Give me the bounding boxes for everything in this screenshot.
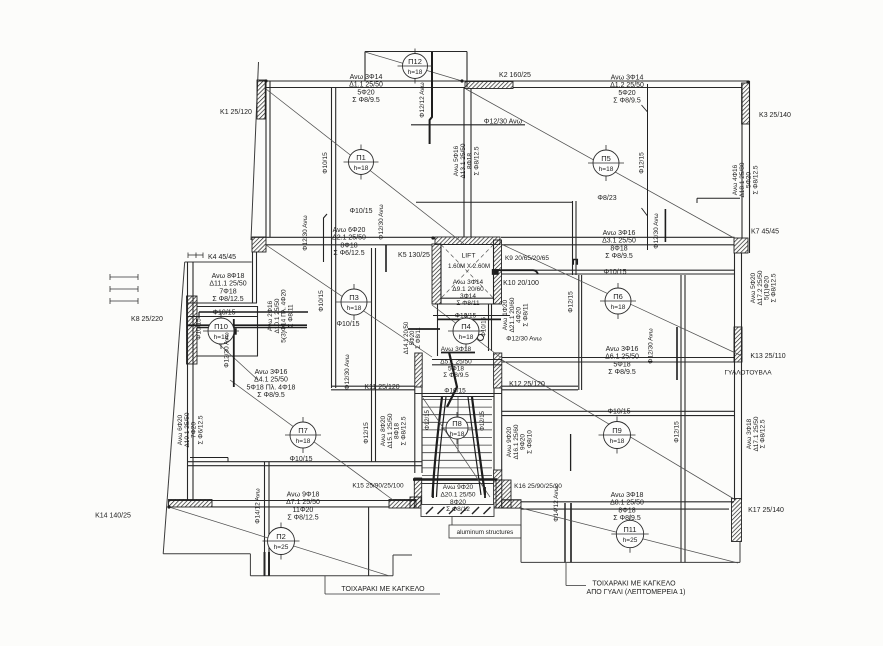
svg-text:Φ12/15: Φ12/15 <box>568 291 575 313</box>
svg-text:Π5: Π5 <box>601 154 611 163</box>
svg-text:Φ14/12 Ανω: Φ14/12 Ανω <box>255 488 262 523</box>
stair wall left bottom <box>414 478 421 508</box>
svg-text:Ανω 3Φ18: Ανω 3Φ18 <box>441 346 472 353</box>
svg-text:ΤΟΙΧΑΡΑΚΙ ΜΕ ΚΑΓΚΕΛΟ: ΤΟΙΧΑΡΑΚΙ ΜΕ ΚΑΓΚΕΛΟ <box>592 581 676 588</box>
slab label P11 <box>611 515 648 552</box>
rebar tick stair bottom left <box>432 487 434 498</box>
svg-text:5Φ20: 5Φ20 <box>618 90 635 97</box>
svg-text:Δ11.1 25/50: Δ11.1 25/50 <box>209 281 246 288</box>
svg-text:Σ Φ8/12.5: Σ Φ8/12.5 <box>212 296 243 303</box>
svg-text:Κ3 25/140: Κ3 25/140 <box>759 112 791 119</box>
stair wall right bottom <box>494 470 502 508</box>
svg-text:Π12: Π12 <box>408 57 422 66</box>
svg-text:Ανω 9Φ18: Ανω 9Φ18 <box>287 492 320 499</box>
svg-text:8Φ18: 8Φ18 <box>340 242 357 249</box>
rebar note D11.1 <box>209 273 246 303</box>
svg-text:aluminum structures: aluminum structures <box>457 529 514 536</box>
rebar phi8/23 <box>416 201 573 203</box>
svg-text:h=18: h=18 <box>599 166 614 173</box>
wall K8 <box>187 296 198 364</box>
row E end hooks <box>190 457 228 459</box>
slab label P2 <box>263 523 300 560</box>
wall K10 filled <box>492 269 499 274</box>
svg-text:Δ2.1 25/50: Δ2.1 25/50 <box>332 235 366 242</box>
svg-text:Κ17 25/140: Κ17 25/140 <box>748 507 784 514</box>
svg-text:Φ12/30 Ανω: Φ12/30 Ανω <box>344 354 351 389</box>
svg-text:Δ9.1 20/60: Δ9.1 20/60 <box>452 286 484 293</box>
stair center line <box>457 397 459 453</box>
svg-text:8Φ20: 8Φ20 <box>450 499 466 506</box>
svg-text:Δ8.1 25/50: Δ8.1 25/50 <box>610 500 644 507</box>
svg-text:5Φ20: 5Φ20 <box>357 89 374 96</box>
column K1 <box>257 80 265 119</box>
svg-text:Σ Φ8/9.5: Σ Φ8/9.5 <box>352 97 380 104</box>
rot note D17.2 <box>750 270 777 305</box>
svg-text:Ανω 3Φ18: Ανω 3Φ18 <box>611 492 644 499</box>
rebar note D6.1 <box>605 346 639 376</box>
svg-text:Φ12/30 Ανω: Φ12/30 Ανω <box>506 336 541 343</box>
svg-text:7Φ18: 7Φ18 <box>219 288 236 295</box>
column K17 <box>732 499 742 542</box>
column K3 <box>742 83 750 124</box>
rot note D13.1 <box>453 143 480 178</box>
svg-text:Σ Φ6/12.5: Σ Φ6/12.5 <box>197 415 204 444</box>
svg-text:Κ1 25/120: Κ1 25/120 <box>220 109 252 116</box>
rebar note D3.1 <box>602 230 636 260</box>
dark bar above D5.1 <box>441 352 475 354</box>
svg-text:ΑΠΟ ΓΥΑΛΙ (ΛΕΠΤΟΜΕΡΕΙΑ 1): ΑΠΟ ΓΥΑΛΙ (ΛΕΠΤΟΜΕΡΕΙΑ 1) <box>587 589 686 596</box>
svg-text:Ανω 3Φ14: Ανω 3Φ14 <box>453 279 484 286</box>
svg-text:Σ Φ8/9.5: Σ Φ8/9.5 <box>443 372 469 379</box>
svg-text:Κ9 20/65/20/65: Κ9 20/65/20/65 <box>505 255 549 262</box>
core wall left <box>432 244 441 304</box>
aluminum structures wall <box>421 505 494 517</box>
svg-text:Σ Φ8/9.5: Σ Φ8/9.5 <box>257 392 285 399</box>
svg-text:Κ12 25/120: Κ12 25/120 <box>509 381 545 388</box>
svg-text:Ανω 3Φ16: Ανω 3Φ16 <box>606 346 639 353</box>
svg-text:Π3: Π3 <box>349 293 359 302</box>
svg-text:Φ12/15: Φ12/15 <box>639 152 646 174</box>
rot note D18.1 <box>732 162 759 197</box>
svg-text:Φ10/15: Φ10/15 <box>603 269 626 276</box>
svg-text:Π7: Π7 <box>298 426 308 435</box>
rot note D10.1 left <box>177 412 204 447</box>
svg-text:h=25: h=25 <box>274 544 289 551</box>
svg-text:Κ15 25/90/25/100: Κ15 25/90/25/100 <box>352 483 404 490</box>
rebar note D8.1 <box>610 492 644 522</box>
rebar phi12/15 vertical <box>647 84 649 250</box>
rebar verticals right-middle <box>664 209 666 242</box>
svg-text:ΤΟΙΧΑΡΑΚΙ ΜΕ ΚΑΓΚΕΛΟ: ΤΟΙΧΑΡΑΚΙ ΜΕ ΚΑΓΚΕΛΟ <box>341 586 425 593</box>
svg-text:Κ5 130/25: Κ5 130/25 <box>398 252 430 259</box>
rebar hook P3 top <box>324 214 328 262</box>
slab label P3 <box>336 284 372 320</box>
junction dots <box>460 79 463 82</box>
column K4 <box>252 237 266 252</box>
rebar phi12/30 left <box>233 319 235 387</box>
svg-text:Κ4 45/45: Κ4 45/45 <box>208 254 236 261</box>
svg-text:h=25: h=25 <box>623 537 638 544</box>
svg-text:Π11: Π11 <box>623 525 636 534</box>
aluminum structures label box <box>449 525 521 538</box>
stair wall left top <box>415 353 422 387</box>
slab label P12 <box>398 49 433 84</box>
svg-text:Φ12/12 Ανω: Φ12/12 Ανω <box>419 82 426 117</box>
svg-text:Σ Φ8/12.5: Σ Φ8/12.5 <box>473 146 480 175</box>
svg-text:8Φ18: 8Φ18 <box>610 245 627 252</box>
svg-text:Δ20.1 25/50: Δ20.1 25/50 <box>440 491 475 498</box>
svg-text:Φ10/15: Φ10/15 <box>482 316 488 336</box>
leader left parapet <box>324 576 326 594</box>
svg-text:Σ Φ8/9.5: Σ Φ8/9.5 <box>608 369 636 376</box>
rot note D16.1 <box>506 424 533 459</box>
svg-text:Σ Φ8/11: Σ Φ8/11 <box>287 304 294 328</box>
svg-text:Φ12/15: Φ12/15 <box>363 422 370 444</box>
svg-text:Δ1.1 25/50: Δ1.1 25/50 <box>349 82 383 89</box>
slab label P4 <box>448 313 484 349</box>
beam-wall K2 <box>465 82 513 89</box>
svg-text:h=18: h=18 <box>611 304 626 311</box>
svg-text:Φ12/30 Ανω: Φ12/30 Ανω <box>648 328 655 363</box>
svg-text:Δ5.1 25/50: Δ5.1 25/50 <box>440 359 472 366</box>
svg-text:Π2: Π2 <box>276 532 286 541</box>
svg-text:Ανω 3Φ16: Ανω 3Φ16 <box>603 230 636 237</box>
outer boundary <box>251 62 259 240</box>
svg-text:Σ Φ8/11: Σ Φ8/11 <box>416 327 422 349</box>
svg-text:Φ12/30 Ανω: Φ12/30 Ανω <box>302 215 309 250</box>
svg-text:Δ1.2 25/50: Δ1.2 25/50 <box>610 82 644 89</box>
rebar phi12/12 <box>430 52 432 144</box>
svg-text:Σ Φ8/12.5: Σ Φ8/12.5 <box>770 273 777 302</box>
rebar note D7.1 <box>286 492 320 522</box>
svg-text:Δ3.1 25/50: Δ3.1 25/50 <box>602 238 636 245</box>
rebar note D1.1 <box>349 74 383 104</box>
svg-text:Φ10/15: Φ10/15 <box>322 152 329 174</box>
svg-text:h=18: h=18 <box>610 438 625 445</box>
staircase <box>422 399 492 401</box>
svg-text:Φ12/30 Ανω: Φ12/30 Ανω <box>224 332 231 367</box>
svg-text:h=18: h=18 <box>459 334 474 341</box>
svg-text:Κ14 140/25: Κ14 140/25 <box>95 513 131 520</box>
svg-text:8Φ18: 8Φ18 <box>618 507 635 514</box>
svg-text:Π4: Π4 <box>461 322 471 331</box>
svg-text:h=18: h=18 <box>296 438 311 445</box>
rebar note D9.1 <box>452 279 484 307</box>
svg-text:Σ Φ6/12.5: Σ Φ6/12.5 <box>333 250 364 257</box>
stair section zigzag <box>447 352 457 407</box>
svg-text:Φ12/15: Φ12/15 <box>425 409 431 429</box>
svg-text:Δ6.1 25/50: Δ6.1 25/50 <box>605 354 639 361</box>
rebar note D1.2 <box>610 75 644 105</box>
stair wall right top <box>494 353 502 388</box>
bottom wall K15 right <box>389 500 416 509</box>
core wall right K9 <box>494 240 502 304</box>
rebar tick stair bottom right <box>484 487 486 498</box>
svg-text:Σ Φ8/12.5: Σ Φ8/12.5 <box>752 165 759 194</box>
stair landing line <box>422 483 494 485</box>
svg-text:h=18: h=18 <box>347 305 362 312</box>
slab label P6 <box>600 283 636 319</box>
svg-text:Π10: Π10 <box>214 322 228 331</box>
slab label P10 <box>203 313 239 349</box>
stair bottom corner wall <box>410 497 421 508</box>
svg-text:Σ Φ8/12.5: Σ Φ8/12.5 <box>287 515 318 522</box>
bottom wall K15 left <box>169 500 213 508</box>
slab label P8 <box>441 412 473 444</box>
svg-text:Φ12/15: Φ12/15 <box>480 410 486 430</box>
solid block near P10 <box>231 329 237 335</box>
svg-text:Κ7 45/45: Κ7 45/45 <box>751 229 779 236</box>
stair stringer left <box>433 397 443 497</box>
rebar note D4.1 <box>247 369 296 399</box>
svg-text:Ανω 3Φ14: Ανω 3Φ14 <box>611 75 644 82</box>
svg-text:Φ12/30 Ανω: Φ12/30 Ανω <box>484 119 523 126</box>
rot note D15.1 <box>380 413 407 448</box>
svg-text:h=18: h=18 <box>450 431 465 438</box>
svg-text:3Φ14: 3Φ14 <box>460 293 476 300</box>
rebar rows near P4 <box>433 315 510 317</box>
stair landing heavy line <box>413 478 497 480</box>
svg-text:h=18: h=18 <box>354 165 369 172</box>
svg-text:Δ7.1 25/50: Δ7.1 25/50 <box>286 499 320 506</box>
svg-text:11Φ20: 11Φ20 <box>293 507 314 514</box>
svg-text:Φ10/15: Φ10/15 <box>289 456 312 463</box>
rebar K10 hooked <box>496 270 538 274</box>
svg-text:Π8: Π8 <box>452 419 462 428</box>
leader right parapet <box>565 563 567 586</box>
rot note D10.1 mid <box>267 289 294 343</box>
svg-text:Κ2 160/25: Κ2 160/25 <box>499 72 531 79</box>
svg-text:Φ12/30 Ανω: Φ12/30 Ανω <box>653 213 660 248</box>
rebar phi12/30 top <box>411 124 525 126</box>
svg-text:Σ Φ8/12.5: Σ Φ8/12.5 <box>760 419 767 448</box>
svg-text:Φ10/15: Φ10/15 <box>607 409 630 416</box>
svg-text:Δ4.1 25/50: Δ4.1 25/50 <box>254 377 288 384</box>
svg-text:Π6: Π6 <box>613 292 623 301</box>
rebar rows left-middle <box>199 311 308 313</box>
svg-text:Σ Φ8/12: Σ Φ8/12 <box>446 506 470 513</box>
stair walk line <box>423 398 490 497</box>
svg-text:Κ10 20/100: Κ10 20/100 <box>503 280 539 287</box>
slab label P7 <box>285 417 321 453</box>
stair stringer right <box>472 397 485 495</box>
rebar note D2.1 <box>332 227 366 257</box>
circled mark <box>478 335 484 341</box>
rebar below K5 <box>385 245 387 272</box>
svg-text:Σ Φ8/9.5: Σ Φ8/9.5 <box>613 98 641 105</box>
svg-text:Φ10/15: Φ10/15 <box>196 318 203 340</box>
svg-text:Φ10/15: Φ10/15 <box>455 313 477 320</box>
svg-text:5Φ18: 5Φ18 <box>613 361 630 368</box>
corner wall right of stair <box>496 480 511 508</box>
svg-text:Ανω 9Φ20: Ανω 9Φ20 <box>443 484 474 491</box>
rot note D17.1 <box>746 416 767 451</box>
slab label P1 <box>344 145 379 180</box>
svg-text:Φ14/12 Ανω: Φ14/12 Ανω <box>553 486 560 521</box>
column K7 <box>734 238 748 253</box>
svg-text:Φ10/15: Φ10/15 <box>349 208 372 215</box>
slab label P5 <box>588 145 624 181</box>
svg-text:Σ Φ8/12.5: Σ Φ8/12.5 <box>400 416 407 445</box>
svg-text:Ανω 3Φ16: Ανω 3Φ16 <box>255 369 288 376</box>
svg-text:Π9: Π9 <box>612 426 622 435</box>
core wall top K5 <box>435 237 500 245</box>
svg-text:Κ13 25/110: Κ13 25/110 <box>750 353 785 360</box>
rot note D21.1 <box>502 297 529 332</box>
svg-text:Ανω 6Φ20: Ανω 6Φ20 <box>333 227 366 234</box>
svg-text:Σ Φ8/9.5: Σ Φ8/9.5 <box>613 515 641 522</box>
svg-text:ΓΥΑΛΟΤΟΥΒΛΑ: ΓΥΑΛΟΤΟΥΒΛΑ <box>724 370 772 377</box>
svg-text:h=18: h=18 <box>408 69 423 76</box>
svg-text:LIFT: LIFT <box>462 253 476 260</box>
rebar note D20.1 <box>440 484 475 513</box>
bottom wall K16 <box>502 500 521 508</box>
svg-text:Φ10/15: Φ10/15 <box>444 388 466 395</box>
svg-text:Φ10/15: Φ10/15 <box>336 321 359 328</box>
svg-text:Σ Φ8/9.5: Σ Φ8/9.5 <box>605 253 633 260</box>
slab diagonals <box>266 89 464 244</box>
svg-text:Σ Φ8/11: Σ Φ8/11 <box>522 303 529 327</box>
svg-text:Σ Φ8/11: Σ Φ8/11 <box>456 300 480 307</box>
svg-text:Φ12/30 Ανω: Φ12/30 Ανω <box>378 204 385 239</box>
svg-text:Σ Φ8/10: Σ Φ8/10 <box>526 430 533 454</box>
column K13 <box>734 327 742 362</box>
svg-text:Κ8 25/220: Κ8 25/220 <box>131 316 163 323</box>
svg-text:Π1: Π1 <box>356 153 366 162</box>
slab label P9 <box>599 417 636 454</box>
beam grid <box>259 80 750 82</box>
svg-text:Φ8/23: Φ8/23 <box>597 195 616 202</box>
svg-text:1.60Μ Χ 2.60Μ: 1.60Μ Χ 2.60Μ <box>448 263 490 270</box>
svg-text:Φ10/15: Φ10/15 <box>212 310 235 317</box>
bar schedule marks left <box>110 276 138 278</box>
svg-text:Φ12/15: Φ12/15 <box>674 421 681 443</box>
svg-text:Ανω 3Φ14: Ανω 3Φ14 <box>350 74 383 81</box>
svg-text:Φ10/15: Φ10/15 <box>318 290 325 312</box>
svg-text:Ανω 8Φ18: Ανω 8Φ18 <box>212 273 245 280</box>
svg-text:Κ11 25/120: Κ11 25/120 <box>364 384 399 391</box>
lift shaft <box>441 245 494 299</box>
rot note D14.1 <box>404 321 422 354</box>
svg-text:5Φ18 Πλ. 4Φ18: 5Φ18 Πλ. 4Φ18 <box>247 384 296 391</box>
